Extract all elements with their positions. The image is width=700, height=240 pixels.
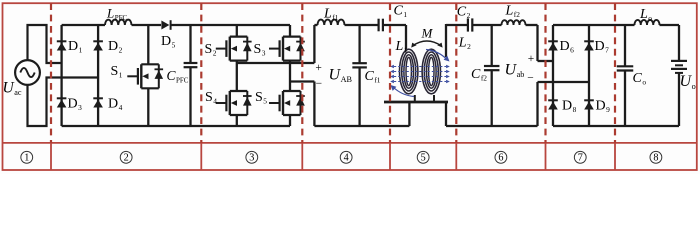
svg-text:D6: D6 xyxy=(560,39,575,55)
svg-text:6: 6 xyxy=(498,153,503,164)
svg-text:CPFC: CPFC xyxy=(167,68,189,85)
svg-text:+: + xyxy=(528,53,535,65)
svg-text:S2: S2 xyxy=(205,42,217,58)
svg-text:L2: L2 xyxy=(458,36,471,52)
svg-text:C2: C2 xyxy=(457,5,471,21)
svg-text:Uo: Uo xyxy=(680,73,696,91)
svg-text:4: 4 xyxy=(344,153,349,164)
svg-text:D3: D3 xyxy=(68,97,83,113)
svg-text:D2: D2 xyxy=(108,39,123,55)
svg-text:D4: D4 xyxy=(108,97,123,113)
svg-text:D5: D5 xyxy=(161,34,176,50)
svg-text:Lf2: Lf2 xyxy=(505,4,521,20)
svg-text:Lf1: Lf1 xyxy=(323,7,339,23)
svg-text:2: 2 xyxy=(124,153,129,164)
svg-text:+: + xyxy=(315,62,322,74)
svg-text:S5: S5 xyxy=(255,90,267,106)
svg-text:−: − xyxy=(316,78,323,90)
svg-text:D8: D8 xyxy=(562,99,577,115)
svg-text:7: 7 xyxy=(578,153,583,164)
svg-text:S3: S3 xyxy=(254,42,266,58)
svg-text:D1: D1 xyxy=(68,39,83,55)
svg-text:3: 3 xyxy=(249,153,254,164)
svg-text:UAB: UAB xyxy=(329,67,353,85)
svg-text:D7: D7 xyxy=(595,39,610,55)
svg-text:S4: S4 xyxy=(205,90,217,106)
svg-text:D9: D9 xyxy=(596,99,611,115)
svg-text:8: 8 xyxy=(653,153,658,164)
svg-text:Lo: Lo xyxy=(639,7,652,23)
svg-text:S1: S1 xyxy=(111,64,123,80)
svg-text:Co: Co xyxy=(633,71,647,87)
svg-text:M: M xyxy=(421,26,434,41)
svg-text:LPFC: LPFC xyxy=(106,6,128,23)
svg-text:1: 1 xyxy=(24,153,29,164)
svg-text:Cf1: Cf1 xyxy=(365,69,381,85)
svg-text:−: − xyxy=(527,73,534,85)
svg-text:5: 5 xyxy=(421,153,426,164)
svg-text:C1: C1 xyxy=(394,4,408,20)
svg-text:Uab: Uab xyxy=(505,62,525,80)
